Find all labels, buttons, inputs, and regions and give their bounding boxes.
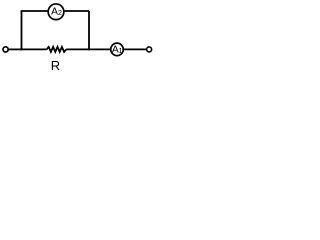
wire ammeter A1 to right terminal bbox=[124, 48, 146, 50]
wire left terminal to node A bbox=[9, 48, 22, 50]
wire ammeter A2 to top-right corner bbox=[65, 10, 89, 12]
resistor R (zigzag) bbox=[47, 47, 67, 52]
wire node B to ammeter A1 bbox=[89, 48, 111, 50]
svg-text:2: 2 bbox=[58, 8, 62, 17]
terminal J2 (right open circle) bbox=[147, 47, 152, 52]
ammeter A1 bbox=[111, 43, 124, 56]
wire left vertical branch bbox=[21, 11, 23, 49]
terminal J1 (left open circle) bbox=[3, 47, 8, 52]
wire right vertical branch bbox=[88, 11, 90, 49]
ammeter A2 bbox=[48, 4, 64, 20]
wire node A to resistor bbox=[22, 48, 47, 50]
node A (junction bottom-left) bbox=[21, 48, 23, 50]
svg-text:1: 1 bbox=[118, 46, 122, 55]
wire resistor to node B bbox=[66, 48, 89, 50]
node B (junction bottom-right) bbox=[88, 48, 90, 50]
wire top-left to ammeter A2 bbox=[22, 10, 48, 13]
svg-text:R: R bbox=[51, 58, 60, 73]
label R value bbox=[51, 58, 60, 73]
